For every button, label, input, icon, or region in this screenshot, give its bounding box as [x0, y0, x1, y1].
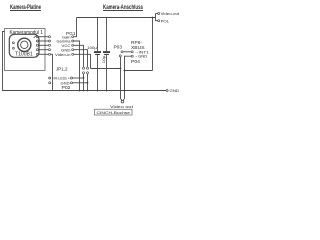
wire VCC down lower — [83, 74, 85, 91]
wire video down to cinch — [121, 57, 123, 101]
module pin 5 — [36, 53, 38, 55]
PG1 left pad 5 — [49, 53, 51, 55]
svg-text:Video-in: Video-in — [55, 52, 71, 57]
label P04 — [131, 59, 141, 64]
label GND — [61, 47, 71, 52]
junction video T — [120, 68, 122, 70]
PG1 left pad 1 — [49, 36, 51, 38]
svg-text:Kamera-Platine: Kamera-Platine — [10, 4, 41, 11]
label 10u rotated — [101, 55, 106, 64]
label JP1,2 — [56, 66, 68, 71]
label Video-in — [55, 52, 71, 57]
label RP6-XBUS — [131, 40, 145, 50]
svg-text:P03: P03 — [114, 44, 123, 49]
connector P02 left pad 1 — [49, 77, 51, 79]
label 100u — [87, 45, 97, 50]
svg-text:100µ: 100µ — [87, 45, 97, 50]
svg-text:POL: POL — [161, 18, 170, 23]
PG1 right pad 5 — [72, 53, 74, 55]
wire Video-in left branch down — [51, 54, 53, 90]
wire P03 to XBUS INT1 — [123, 51, 131, 53]
PG1 left pad 4 — [49, 49, 51, 51]
wire pin5 to PG1 — [38, 53, 48, 55]
label GND P02 — [61, 81, 70, 85]
heading Kamera-Anschluss — [103, 4, 143, 11]
PG1 right pad 3 — [72, 44, 74, 46]
PG1 right pad 1 — [72, 36, 74, 38]
wire Gamma down — [74, 41, 80, 91]
PG1 left pad 3 — [49, 44, 51, 46]
wire pin1 to PG1 — [38, 36, 48, 38]
pin POL — [158, 20, 160, 22]
label IR-LEDs + — [54, 77, 71, 81]
left loop wire — [3, 32, 53, 91]
svg-text:P04: P04 — [131, 59, 141, 64]
camera body — [9, 34, 39, 57]
junction c2 bus — [106, 90, 108, 92]
wire pin4 to PG1 — [38, 49, 48, 51]
body dot A — [13, 42, 15, 44]
XBUS pin GND — [131, 55, 133, 57]
junction top bus riser — [152, 17, 154, 19]
label P02 — [62, 85, 72, 90]
junction shield bus — [124, 90, 126, 92]
stub POL — [156, 20, 158, 22]
label Video out — [110, 104, 134, 109]
body notch — [34, 36, 37, 38]
underline heading1 — [10, 10, 41, 12]
wire right riser — [152, 18, 154, 71]
body dot B — [13, 47, 15, 49]
cinch pin — [121, 100, 124, 103]
pin GND right — [166, 90, 168, 92]
svg-text:Video-out: Video-out — [161, 11, 180, 16]
top bus wire — [77, 17, 156, 19]
wire GND down upper — [74, 50, 88, 67]
jumper JP1 bottom pad — [83, 72, 85, 74]
wire pin3 to PG1 — [38, 44, 48, 46]
lens inner — [21, 41, 28, 48]
module pin 3 — [36, 44, 38, 46]
wire Video-in right down — [74, 54, 91, 68]
label Gain — [62, 34, 71, 39]
cinch box — [95, 109, 133, 115]
module frame Kameramodul 1 — [5, 29, 46, 71]
jumper JP2 bottom pad — [87, 72, 89, 74]
wire pin2 to PG1 — [38, 40, 48, 42]
PG1 right pad 2 — [72, 40, 74, 42]
capacitor C1 wire lower — [97, 55, 99, 91]
junction gamma bus — [79, 90, 81, 92]
wire VCC down upper — [74, 45, 84, 67]
output pin bar — [155, 14, 157, 22]
svg-text:Kamera-Anschluss: Kamera-Anschluss — [103, 4, 143, 11]
svg-text:P02: P02 — [62, 85, 72, 90]
connector label PG1 — [66, 31, 76, 36]
svg-text:IR-LEDs +: IR-LEDs + — [54, 77, 71, 81]
PG1 right pad 4 — [72, 49, 74, 51]
junction IR-LEDs — [83, 77, 85, 79]
module pin 4 — [36, 49, 38, 51]
junction vcc bus — [83, 90, 85, 92]
module pin 2 — [36, 40, 38, 42]
capacitor C1 wire upper — [97, 18, 99, 52]
svg-text:GND: GND — [170, 88, 180, 93]
label VCC — [62, 43, 71, 48]
label Gamma — [57, 39, 72, 44]
svg-text:CINCH-Buchse: CINCH-Buchse — [97, 110, 131, 115]
wire video horizontal — [91, 68, 121, 70]
wire gnd horizontal to right riser — [125, 70, 153, 72]
svg-text:T100B1: T100B1 — [15, 52, 33, 58]
wire XBUS GND down to cinch shield — [123, 56, 131, 100]
label CINCH-Buchse — [97, 110, 131, 115]
heading Kamera-Platine — [10, 4, 41, 11]
capacitor C1 plates 100u — [94, 51, 101, 53]
connector P02 left pad 2 — [49, 82, 51, 84]
XBUS pin INT1 — [131, 51, 133, 53]
svg-text:JP1,2: JP1,2 — [56, 66, 68, 71]
lens outer — [18, 38, 31, 51]
junction c1 bus — [97, 90, 99, 92]
jumper P03 bottom pad — [119, 55, 121, 57]
capacitor C2 wire upper — [106, 18, 108, 52]
wire GND down lower — [87, 74, 89, 91]
capacitor C2 plates 10u — [103, 51, 110, 53]
wire Gain up to top bus — [74, 18, 77, 37]
jumper JP1 top pad — [83, 67, 85, 69]
module pin 1 — [36, 36, 38, 38]
svg-text:10µ: 10µ — [101, 55, 106, 64]
pin Video-out — [158, 13, 160, 15]
junction GND P02 — [87, 82, 89, 84]
P02 right pad 1 — [71, 77, 73, 79]
underline heading2 — [103, 10, 143, 12]
jumper P03 top pad — [121, 51, 123, 53]
capacitor C2 wire lower — [106, 55, 108, 91]
junction gnd bus — [87, 90, 89, 92]
svg-text:Video out: Video out — [110, 104, 134, 109]
jumper P03 label — [114, 44, 123, 49]
wire IR-LEDs to JP1 line — [73, 77, 84, 79]
stub video-out — [156, 13, 158, 15]
body label T100B1 — [15, 52, 33, 58]
P02 right pad 2 — [71, 82, 73, 84]
PG1 left pad 2 — [49, 40, 51, 42]
junction gnd riser T — [124, 70, 126, 72]
wire GND P02 to JP2 line — [73, 82, 88, 84]
jumper JP2 top pad — [87, 67, 89, 69]
gnd bus wire — [53, 90, 167, 92]
